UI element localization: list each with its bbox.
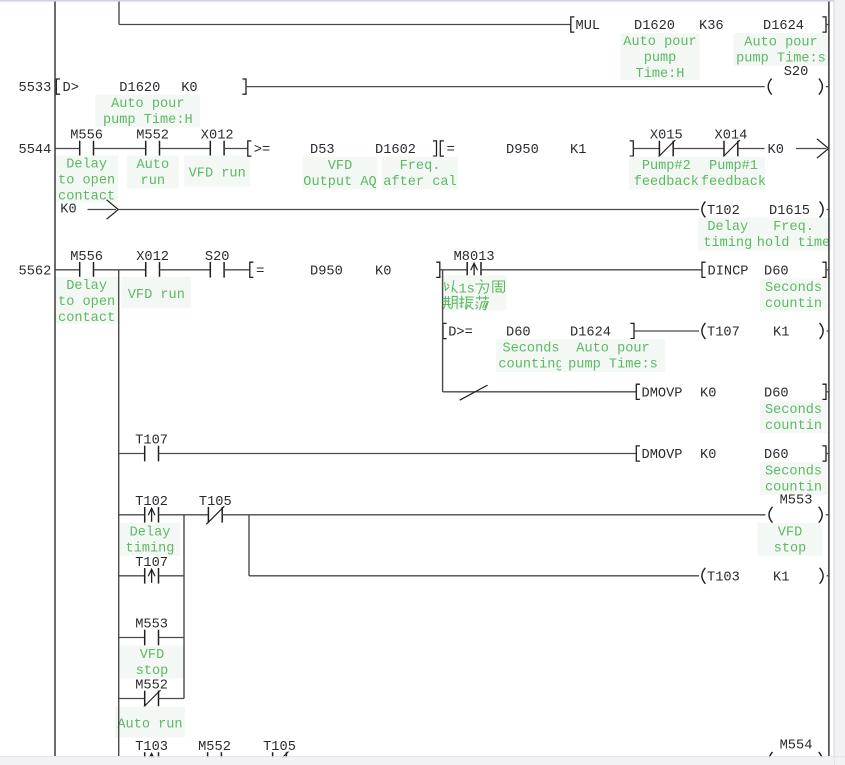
comment M8013 <box>441 275 507 310</box>
svg-text:K0: K0 <box>375 263 391 279</box>
contact X015 (NC) <box>650 128 683 159</box>
contact S20 <box>205 249 230 278</box>
svg-text:T105: T105 <box>199 494 232 510</box>
svg-text:pump: pump <box>644 50 677 66</box>
wire <box>826 391 829 393</box>
comment M553 <box>120 646 185 680</box>
comment M556 <box>55 277 118 326</box>
svg-text:D>: D> <box>63 80 79 96</box>
svg-text:Seconds: Seconds <box>765 464 822 480</box>
contact T105 (NC) <box>199 494 232 525</box>
svg-text:Time:H: Time:H <box>636 66 685 82</box>
branch wire <box>248 515 250 576</box>
compare block D> D1620 K0 <box>56 79 246 96</box>
svg-text:S20: S20 <box>205 249 230 265</box>
comment D60 <box>760 462 827 496</box>
comment X012 <box>121 277 191 308</box>
svg-text:D1615: D1615 <box>769 203 810 219</box>
wire <box>246 86 765 88</box>
svg-text:T107: T107 <box>707 325 740 341</box>
comment M556 <box>55 156 118 205</box>
svg-text:to open: to open <box>58 173 115 189</box>
svg-text:M553: M553 <box>135 617 168 633</box>
svg-text:D950: D950 <box>310 263 343 279</box>
svg-text:D60: D60 <box>764 385 789 401</box>
svg-text:K0: K0 <box>181 80 197 96</box>
svg-text:M553: M553 <box>780 492 813 508</box>
wire <box>673 148 724 150</box>
svg-text:K0: K0 <box>700 447 716 463</box>
wire <box>224 148 248 150</box>
wire <box>119 575 145 577</box>
wire <box>249 575 699 577</box>
svg-text:timing: timing <box>703 235 752 251</box>
wire <box>55 269 80 271</box>
comment D1602 <box>382 157 458 191</box>
comment D53 <box>303 157 378 191</box>
comment T102 <box>698 218 758 252</box>
svg-text:T105: T105 <box>263 739 296 755</box>
svg-text:K36: K36 <box>699 18 724 34</box>
svg-text:X014: X014 <box>715 128 748 144</box>
coil T102 D1615 <box>702 202 829 220</box>
svg-text:to open: to open <box>58 294 115 310</box>
svg-text:D>=: D>= <box>448 325 473 341</box>
svg-text:D1620: D1620 <box>634 18 675 34</box>
svg-text:Pump#2: Pump#2 <box>642 158 691 174</box>
wire <box>160 269 211 271</box>
wire <box>119 637 145 639</box>
svg-text:VFD: VFD <box>778 524 803 540</box>
contact M552 <box>198 739 231 765</box>
svg-text:after cal: after cal <box>383 174 456 190</box>
svg-text:feedback: feedback <box>701 174 766 190</box>
compare block D>= D60 D1624 <box>443 323 634 340</box>
comment D60 <box>496 339 566 373</box>
contact M553 <box>135 617 168 646</box>
svg-text:D1624: D1624 <box>763 18 804 34</box>
svg-text:pump Time:s: pump Time:s <box>568 357 658 373</box>
svg-text:K1: K1 <box>773 569 789 585</box>
wire <box>826 453 829 455</box>
left power rail <box>54 2 56 757</box>
svg-text:Delay: Delay <box>66 157 107 173</box>
function block DMOVP K0 D60 <box>636 384 826 401</box>
svg-text:=: = <box>447 142 455 158</box>
svg-text:K0: K0 <box>60 202 76 218</box>
wire <box>443 391 636 393</box>
svg-text:K1: K1 <box>570 142 586 158</box>
comment D1624 <box>561 339 665 373</box>
svg-text:K0: K0 <box>700 385 716 401</box>
svg-text:5562: 5562 <box>19 263 52 279</box>
svg-text:counting: counting <box>498 357 563 373</box>
comment D1624 <box>734 33 829 67</box>
comment M552 <box>115 707 185 738</box>
svg-text:S20: S20 <box>784 64 809 80</box>
coil T107 K1 <box>702 323 829 341</box>
svg-text:X012: X012 <box>136 249 169 265</box>
comment M553 <box>758 523 823 557</box>
svg-text:Freq.: Freq. <box>400 158 441 174</box>
contact M8013 (pulse) <box>454 249 495 278</box>
svg-text:D60: D60 <box>506 325 531 341</box>
wire <box>94 148 146 150</box>
svg-text:T102: T102 <box>707 203 740 219</box>
comment D60 <box>760 278 827 312</box>
contact M552 (NC) <box>135 678 168 709</box>
coil M553 <box>769 492 829 523</box>
wire <box>222 514 765 516</box>
wire <box>159 453 637 455</box>
svg-text:DINCP: DINCP <box>708 263 749 279</box>
wire <box>94 269 146 271</box>
branch wire <box>183 515 185 699</box>
svg-text:run: run <box>141 173 166 189</box>
wire from previous rung <box>118 2 120 25</box>
svg-text:X015: X015 <box>650 128 683 144</box>
wire <box>119 24 571 26</box>
svg-text:X012: X012 <box>201 128 234 144</box>
svg-text:DMOVP: DMOVP <box>642 385 683 401</box>
svg-text:Freq.: Freq. <box>773 219 814 235</box>
contact X012 <box>136 249 169 278</box>
svg-text:=: = <box>256 263 264 279</box>
svg-text:M556: M556 <box>70 128 103 144</box>
wire <box>738 148 765 150</box>
svg-text:feedback: feedback <box>634 174 699 190</box>
wire <box>159 637 185 639</box>
contact T107 <box>135 433 168 462</box>
wire <box>826 269 829 271</box>
svg-text:D950: D950 <box>506 142 539 158</box>
comment D60 <box>760 400 827 434</box>
function block DMOVP K0 D60 <box>636 446 826 463</box>
svg-text:Auto run: Auto run <box>117 717 182 733</box>
wire <box>55 148 80 150</box>
svg-text:D1602: D1602 <box>375 142 416 158</box>
comment D1615 <box>756 218 832 252</box>
svg-text:stop: stop <box>774 540 807 556</box>
comment M552 <box>127 156 179 190</box>
wire <box>159 575 185 577</box>
svg-text:K0: K0 <box>768 142 784 158</box>
svg-text:M552: M552 <box>198 739 231 755</box>
svg-text:>=: >= <box>254 142 270 158</box>
compare block >= D53 D1602 <box>248 141 437 158</box>
svg-text:M552: M552 <box>136 128 169 144</box>
contact T105 (NC) <box>263 739 296 765</box>
svg-text:T107: T107 <box>135 433 168 449</box>
contact X014 (NC) <box>715 128 748 159</box>
svg-text:VFD run: VFD run <box>128 287 185 303</box>
contact X012 <box>201 128 234 157</box>
compare block = D950 K1 <box>440 141 633 158</box>
svg-text:Seconds: Seconds <box>765 280 822 296</box>
wire <box>224 269 250 271</box>
svg-text:Seconds: Seconds <box>765 402 822 418</box>
svg-text:5544: 5544 <box>19 142 52 158</box>
wire <box>160 148 211 150</box>
coil T103 K1 <box>702 568 829 586</box>
svg-text:Auto pour: Auto pour <box>576 341 649 357</box>
svg-text:hold time: hold time <box>757 235 830 251</box>
svg-text:VFD: VFD <box>140 647 165 663</box>
svg-text:countin: countin <box>765 418 822 434</box>
comment D1620 <box>95 95 200 129</box>
wire <box>119 453 145 455</box>
comment X014 <box>701 157 766 191</box>
svg-text:K1: K1 <box>773 325 789 341</box>
comment X012 <box>184 156 250 187</box>
wire <box>634 330 699 332</box>
svg-text:D1624: D1624 <box>570 325 611 341</box>
svg-text:pump Time:s: pump Time:s <box>736 51 826 67</box>
svg-text:T103: T103 <box>707 569 740 585</box>
wire <box>159 514 209 516</box>
contact T107 (pulse) <box>135 555 168 584</box>
svg-text:D60: D60 <box>764 447 789 463</box>
comment D1620 <box>621 33 700 82</box>
coil S20 <box>768 64 829 95</box>
wire <box>633 148 659 150</box>
contact T102 (pulse) <box>135 494 168 523</box>
wire <box>159 698 185 700</box>
top window border <box>0 0 834 2</box>
svg-text:Delay: Delay <box>66 278 107 294</box>
svg-text:Auto pour: Auto pour <box>111 96 184 112</box>
wrap-out arrow <box>796 139 829 158</box>
wire <box>481 269 702 271</box>
svg-text:D60: D60 <box>764 263 789 279</box>
svg-text:5533: 5533 <box>19 80 52 96</box>
comment X015 <box>629 157 704 191</box>
function block DINCP D60 <box>702 262 826 279</box>
svg-text:M556: M556 <box>70 249 103 265</box>
svg-text:Delay: Delay <box>130 524 171 540</box>
right power rail <box>828 2 830 757</box>
svg-text:MUL: MUL <box>576 18 601 34</box>
svg-text:VFD: VFD <box>328 158 353 174</box>
wire <box>118 209 699 211</box>
wire <box>119 514 145 516</box>
contact M556 <box>70 128 103 157</box>
coil M554 <box>769 738 822 765</box>
wire <box>826 24 829 26</box>
branch wire <box>442 270 444 392</box>
svg-text:M554: M554 <box>780 738 813 754</box>
svg-text:Delay: Delay <box>707 219 748 235</box>
wire <box>119 698 145 700</box>
wire <box>440 269 467 271</box>
svg-text:M552: M552 <box>135 678 168 694</box>
compare block = D950 K0 <box>250 262 440 279</box>
INV instruction <box>460 385 488 400</box>
svg-text:Pump#1: Pump#1 <box>709 158 758 174</box>
svg-text:Output AQ: Output AQ <box>303 174 376 190</box>
bottom window border <box>0 756 845 765</box>
right window border <box>834 0 845 765</box>
svg-text:DMOVP: DMOVP <box>642 447 683 463</box>
svg-text:countin: countin <box>765 296 822 312</box>
svg-text:Seconds: Seconds <box>502 341 559 357</box>
svg-text:Auto pour: Auto pour <box>623 34 696 50</box>
contact M556 <box>70 249 103 278</box>
comment T102 <box>120 523 180 557</box>
svg-text:VFD run: VFD run <box>189 166 246 182</box>
svg-text:Auto: Auto <box>137 157 170 173</box>
svg-text:D1620: D1620 <box>119 80 160 96</box>
contact T103 (pulse) <box>135 739 168 765</box>
svg-text:D53: D53 <box>310 142 335 158</box>
svg-text:pump Time:H: pump Time:H <box>103 112 193 128</box>
svg-text:1s: 1s <box>459 282 475 298</box>
svg-text:Auto pour: Auto pour <box>744 35 817 51</box>
wrap-in arrow <box>88 200 119 219</box>
contact M552 <box>136 128 169 157</box>
svg-text:contact: contact <box>58 310 115 326</box>
branch wire <box>118 270 120 756</box>
function block MUL <box>571 17 826 34</box>
